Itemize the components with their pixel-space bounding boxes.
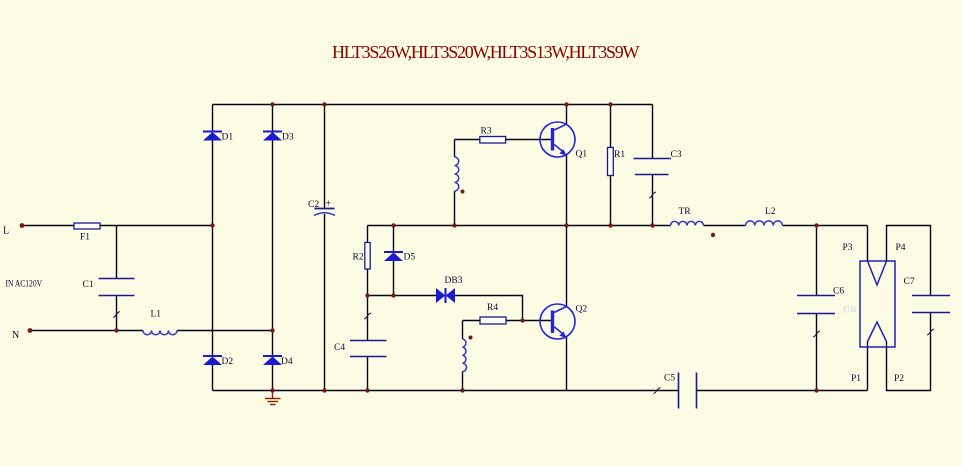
svg-text:D4: D4 — [281, 357, 293, 367]
svg-text:DB3: DB3 — [445, 276, 463, 286]
svg-text:C2: C2 — [308, 200, 319, 210]
svg-text:Q1: Q1 — [576, 150, 588, 160]
svg-text:C7: C7 — [904, 277, 915, 287]
svg-text:D2: D2 — [222, 357, 234, 367]
svg-text:P2: P2 — [894, 374, 904, 384]
svg-text:D3: D3 — [282, 133, 294, 143]
svg-text:C1: C1 — [83, 280, 94, 290]
svg-text:灯丝: 灯丝 — [843, 305, 857, 314]
svg-text:C4: C4 — [334, 343, 345, 353]
svg-text:P3: P3 — [843, 243, 853, 253]
svg-text:P1: P1 — [851, 374, 861, 384]
svg-text:HLT3S26W,HLT3S20W,HLT3S13W,HLT: HLT3S26W,HLT3S20W,HLT3S13W,HLT3S9W — [332, 42, 640, 62]
svg-text:L2: L2 — [765, 207, 776, 217]
svg-text:D1: D1 — [222, 133, 234, 143]
svg-text:Q2: Q2 — [576, 305, 588, 315]
svg-text:N: N — [12, 330, 19, 341]
svg-text:D5: D5 — [404, 253, 416, 263]
svg-text:C5: C5 — [664, 374, 675, 384]
svg-text:TR: TR — [679, 207, 692, 217]
svg-text:R4: R4 — [487, 303, 498, 313]
svg-text:R3: R3 — [481, 127, 492, 137]
svg-text:F1: F1 — [80, 233, 90, 243]
svg-text:C3: C3 — [671, 150, 682, 160]
svg-text:L1: L1 — [151, 310, 162, 320]
svg-text:C6: C6 — [833, 287, 844, 297]
svg-text:R1: R1 — [614, 150, 625, 160]
svg-text:IN AC120V: IN AC120V — [6, 279, 43, 289]
svg-text:L: L — [3, 226, 9, 237]
svg-text:P4: P4 — [896, 243, 906, 253]
svg-text:+: + — [326, 199, 332, 210]
svg-text:R2: R2 — [353, 253, 364, 263]
